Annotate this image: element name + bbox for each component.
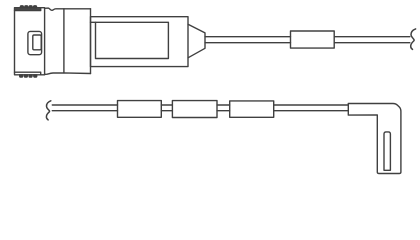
top teeth: [20, 6, 37, 8]
housing outer rectangle: [91, 17, 189, 67]
bottom band line with end tick: [15, 72, 41, 75]
latch outer: [28, 31, 42, 54]
wire bottom segment 4: [274, 105, 349, 111]
wire top sensor segment 1: [205, 37, 291, 43]
inner rect top tick: [91, 21, 96, 23]
wire bottom segment 3: [217, 105, 230, 111]
tall section right edge / housing left edge: [90, 9, 92, 74]
collar bottom edge: [45, 73, 91, 75]
top band second line with end tick: [15, 8, 41, 11]
bottom teeth: [20, 75, 37, 78]
latch inner: [33, 35, 41, 50]
top sensor: connector end cap block: [15, 8, 45, 75]
sleeve 1: [118, 101, 162, 118]
break squiggle left (bottom sensor): [46, 101, 50, 120]
wire top sensor segment 2: [334, 37, 410, 43]
collar/tall-section separator: [63, 9, 65, 73]
wire bottom segment 1: [52, 105, 117, 111]
wire bottom segment 2: [161, 105, 172, 111]
taper: [188, 24, 205, 58]
sleeve 2: [172, 101, 217, 118]
collar top edge with dip, continuing over tall section: [45, 8, 91, 10]
elbow boot outline: [348, 104, 401, 174]
sleeve on top wire: [291, 31, 335, 48]
slot in elbow: [384, 132, 390, 170]
break squiggle right: [411, 29, 416, 50]
sleeve 3: [230, 101, 274, 117]
housing inner rectangle: [96, 22, 169, 58]
top band fill: [15, 8, 41, 11]
